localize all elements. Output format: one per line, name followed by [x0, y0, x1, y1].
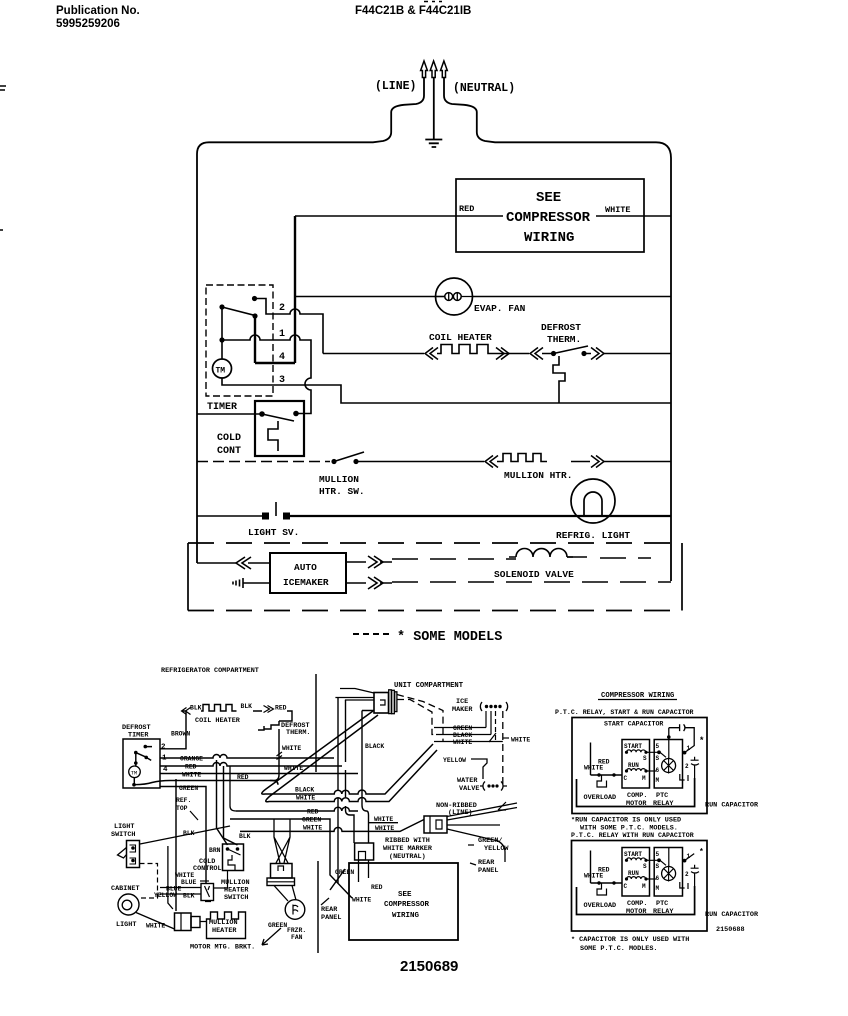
svg-text:PANEL: PANEL	[478, 867, 498, 875]
mullion heater connector	[175, 913, 192, 931]
label COLD CONT	[217, 433, 241, 457]
jog symbol	[489, 733, 496, 742]
svg-text:F44C21B & F44C21IB: F44C21B & F44C21IB	[355, 5, 471, 17]
svg-text:BLK: BLK	[239, 833, 251, 840]
svg-text:BLACK: BLACK	[295, 787, 314, 794]
compressor motor unit 2	[577, 848, 700, 917]
svg-text:GREEN: GREEN	[453, 725, 472, 732]
svg-text:WHITE: WHITE	[605, 205, 631, 215]
icemaker wire rows	[434, 728, 503, 742]
ptc relay box	[654, 740, 682, 789]
freezer fan motor connector	[271, 864, 293, 879]
svg-text:YELLOW: YELLOW	[443, 757, 466, 764]
timer motor TM	[213, 359, 232, 378]
svg-text:WHITE: WHITE	[375, 825, 394, 832]
svg-text:P.T.C. RELAY WITH RUN CAPACITO: P.T.C. RELAY WITH RUN CAPACITOR	[571, 832, 694, 839]
svg-text:WHITE: WHITE	[282, 745, 301, 752]
svg-text:RUN CAPACITOR: RUN CAPACITOR	[705, 802, 759, 810]
svg-text:FRZR.: FRZR.	[287, 927, 306, 934]
svg-text:RED: RED	[307, 809, 319, 816]
svg-text:WHITE: WHITE	[182, 772, 201, 779]
svg-text:AUTO: AUTO	[294, 562, 317, 573]
label ICE MAKER	[452, 698, 473, 714]
mullion heater box castellated	[207, 912, 246, 939]
comp motor box	[622, 740, 650, 789]
svg-text:HTR. SW.: HTR. SW.	[319, 486, 365, 497]
mullion heater switch	[331, 459, 336, 464]
wire to solenoid valve dashed	[392, 557, 651, 559]
wire evap fan rail	[295, 296, 671, 298]
svg-text:BLK: BLK	[241, 703, 253, 710]
svg-text:BRN: BRN	[209, 847, 221, 854]
coil heater arrows left	[182, 708, 191, 715]
white stub wire	[369, 822, 399, 824]
svg-text:START CAPACITOR: START CAPACITOR	[604, 721, 663, 728]
vertical white wire w1	[175, 779, 177, 911]
svg-text:WHITE: WHITE	[146, 923, 165, 930]
svg-text:RELAY: RELAY	[653, 800, 674, 808]
svg-text:M: M	[656, 777, 660, 784]
motor flange	[267, 878, 295, 886]
svg-text:2: 2	[685, 763, 689, 770]
svg-text:4: 4	[279, 352, 285, 363]
AUTO ICEMAKER box	[270, 553, 346, 593]
TIMER dashed box	[206, 285, 273, 396]
svg-text:YELLOW: YELLOW	[154, 892, 177, 899]
svg-text:LIGHT: LIGHT	[114, 823, 134, 831]
svg-text:BLK: BLK	[190, 705, 202, 712]
svg-text:MOTOR: MOTOR	[626, 800, 647, 808]
svg-text:ORANGE: ORANGE	[180, 756, 203, 763]
labels FRZR FAN GREEN	[268, 922, 306, 941]
light switch	[127, 841, 140, 868]
cold control contacts	[259, 411, 265, 417]
svg-text:COMPRESSOR: COMPRESSOR	[384, 901, 430, 909]
svg-text:1: 1	[279, 329, 285, 340]
start capacitor symbol	[669, 724, 694, 746]
labels GREEN BLACK WHITE	[453, 725, 472, 746]
overload protector	[597, 775, 607, 787]
svg-text:GREEN/: GREEN/	[478, 837, 502, 845]
wire timer 3 from TM to right rail	[222, 378, 671, 403]
svg-text:WIRING: WIRING	[524, 230, 574, 246]
plug prong LINE	[421, 61, 428, 78]
left lead vertical	[590, 743, 592, 776]
wire terminal 2 from contact A	[255, 299, 324, 354]
svg-text:COIL HEATER: COIL HEATER	[195, 717, 241, 725]
SOME MODELS dashed enclosure	[188, 543, 682, 611]
svg-text:REAR: REAR	[478, 859, 495, 867]
bottom bus	[577, 778, 695, 807]
svg-text:COLD: COLD	[217, 433, 241, 444]
svg-text:WHITE: WHITE	[352, 897, 371, 904]
svg-text:CONT: CONT	[217, 446, 241, 457]
svg-text:RED: RED	[275, 705, 287, 712]
labels COLD CONTROL BRN	[193, 858, 222, 873]
timer motor TM	[129, 766, 141, 778]
svg-text:RIBBED WITH: RIBBED WITH	[385, 837, 430, 845]
wire terminal 1 from contact D	[222, 335, 311, 414]
COMPRESSOR WIRING SECTION	[555, 692, 759, 953]
svg-text:BROWN: BROWN	[171, 731, 190, 738]
svg-text:(NEUTRAL): (NEUTRAL)	[453, 82, 515, 95]
cold control bellows	[268, 421, 278, 451]
compressor diagram 2 enclosure	[572, 841, 708, 932]
plug diagonal to harness row WHITE2	[266, 715, 437, 802]
svg-text:COMPRESSOR WIRING: COMPRESSOR WIRING	[601, 692, 674, 700]
wire labels column	[154, 872, 197, 900]
svg-text:WHITE: WHITE	[511, 737, 530, 744]
label REAR PANEL right	[478, 859, 498, 875]
svg-text:P.T.C. RELAY, START & RUN CAPA: P.T.C. RELAY, START & RUN CAPACITOR	[555, 709, 694, 716]
svg-text:PTC: PTC	[656, 792, 668, 800]
coil heater arrows	[425, 348, 509, 360]
cabinet light	[118, 894, 139, 915]
wire light rail right	[286, 515, 671, 517]
compressor motor unit 1	[577, 740, 700, 809]
stray scan marks left edge	[0, 86, 6, 230]
motor legs	[274, 886, 296, 902]
svg-text:HEATER: HEATER	[212, 927, 237, 935]
wire defrost to right edge	[604, 353, 671, 355]
wire mullion rail dashed	[197, 461, 330, 463]
start winding	[627, 750, 646, 752]
wire mullion heater rail	[356, 454, 590, 462]
blade to terminal 1	[683, 746, 695, 753]
svg-text:VALVE: VALVE	[459, 785, 479, 793]
ground symbol	[425, 140, 442, 148]
svg-text:SEE: SEE	[398, 891, 412, 899]
run winding	[627, 769, 646, 771]
svg-text:CONTROL: CONTROL	[193, 865, 222, 873]
cold control pictorial	[223, 844, 244, 871]
harness row RED2 from TM	[134, 781, 278, 785]
svg-text:COIL HEATER: COIL HEATER	[429, 332, 492, 343]
svg-text:GREEN: GREEN	[268, 922, 287, 929]
ptc bottom L terminal	[680, 774, 688, 781]
wires to mullion heater switch	[160, 888, 201, 895]
wire B to D to TM	[221, 307, 223, 359]
svg-text:BLUE: BLUE	[181, 879, 197, 886]
svg-text:1: 1	[687, 745, 691, 752]
svg-text:RUN: RUN	[628, 762, 639, 769]
water valve connector	[480, 782, 507, 791]
wire timer T2 up to coil heater	[160, 711, 186, 749]
terminal labels 2 1 4 3	[279, 303, 285, 386]
rear panel line	[317, 861, 319, 953]
ptc disc	[662, 759, 676, 773]
yellow wire	[471, 759, 487, 779]
long vertical v2 plug to connector	[346, 700, 355, 843]
light switch plunger	[275, 502, 277, 516]
svg-text:COMP.: COMP.	[627, 792, 647, 800]
svg-text:TIMER: TIMER	[207, 402, 237, 413]
plug diagonal to harness row BLACK	[262, 711, 433, 794]
dashed wire light switch to cabinet light	[140, 864, 158, 899]
svg-text:BLACK: BLACK	[365, 743, 384, 750]
svg-text:S: S	[656, 755, 660, 762]
svg-text:MAKER: MAKER	[452, 706, 473, 714]
svg-text:LIGHT SV.: LIGHT SV.	[248, 527, 299, 538]
svg-text:2150689: 2150689	[400, 958, 458, 975]
svg-text:2: 2	[279, 303, 285, 314]
harness row GREEN2	[230, 819, 352, 898]
footnote 2	[571, 936, 689, 953]
plug left wires	[335, 689, 374, 701]
power cord entry	[424, 816, 447, 833]
harness row WHITE	[160, 773, 358, 775]
svg-text:THERM.: THERM.	[286, 729, 310, 737]
svg-text:GREEN: GREEN	[335, 869, 354, 876]
BOTTOM LEFT PICTORIAL DIAGRAM	[111, 667, 530, 953]
svg-text:RUN CAPACITOR: RUN CAPACITOR	[705, 911, 759, 919]
svg-text:REFRIGERATOR COMPARTMENT: REFRIGERATOR COMPARTMENT	[161, 667, 259, 675]
timer cam blade B-C	[222, 307, 255, 316]
svg-text:5: 5	[656, 743, 660, 750]
label REF. TOP with pointer	[176, 797, 191, 812]
coil heater arrows right	[264, 706, 274, 713]
label DEFROST THERM.	[281, 722, 310, 737]
svg-text:WHITE: WHITE	[584, 765, 603, 772]
svg-text:EVAP. FAN: EVAP. FAN	[474, 303, 526, 314]
run row wire	[646, 770, 656, 772]
harness row WHITE3 to power cord	[240, 820, 424, 832]
run capacitor	[691, 757, 699, 778]
svg-text:CABINET: CABINET	[111, 885, 140, 893]
icemaker ground symbol	[233, 578, 243, 588]
svg-text:DEFROST: DEFROST	[541, 322, 581, 333]
compartment separator line	[315, 674, 317, 772]
wires from connector into box	[359, 860, 369, 882]
svg-text:MULLION: MULLION	[209, 919, 238, 927]
svg-text:UNIT COMPARTMENT: UNIT COMPARTMENT	[394, 682, 464, 690]
svg-text:COMPRESSOR: COMPRESSOR	[506, 210, 591, 226]
wire coil heater to defrost therm	[253, 711, 292, 721]
timer contact C	[252, 313, 257, 318]
labels MULLION HEATER	[209, 919, 238, 935]
label LIGHT SWITCH	[111, 823, 135, 839]
svg-text:REF.: REF.	[176, 797, 191, 804]
svg-text:*RUN CAPACITOR IS ONLY USED: *RUN CAPACITOR IS ONLY USED	[571, 817, 681, 825]
svg-text:RED: RED	[459, 204, 474, 214]
wire icemaker bottom to right edge dashed	[392, 581, 671, 583]
labels CABINET LIGHT	[111, 885, 140, 929]
wire icemaker feed from left edge	[197, 562, 270, 564]
svg-text:OVERLOAD: OVERLOAD	[584, 794, 617, 802]
timer terminal labels	[161, 744, 168, 775]
refrigerator light bulb	[571, 479, 615, 523]
rear panel pointer dash	[468, 845, 476, 865]
defrost therm pictorial	[258, 721, 279, 730]
svg-text:TM: TM	[131, 769, 138, 776]
wire white from defrost therm	[270, 729, 279, 781]
wire ground pin to earth symbol	[433, 78, 435, 140]
defrost thermostat	[542, 353, 591, 355]
label WATER VALVE	[457, 777, 479, 793]
svg-text:WHITE MARKER: WHITE MARKER	[383, 845, 433, 853]
svg-text:THERM.: THERM.	[547, 334, 581, 345]
svg-text:MULLION: MULLION	[319, 474, 359, 485]
plug plates	[389, 690, 392, 714]
svg-text:RED: RED	[237, 774, 249, 781]
coil heater element	[201, 705, 237, 712]
vertical drop to cold control right	[224, 766, 238, 845]
svg-text:SOME P.T.C. MODLES.: SOME P.T.C. MODLES.	[580, 945, 658, 953]
svg-text:START: START	[624, 743, 642, 750]
label DEFROST THERM.	[541, 322, 581, 345]
svg-text:FAN: FAN	[291, 934, 303, 941]
label MULLION HTR. SW.	[319, 474, 365, 497]
solenoid valve coil	[516, 549, 567, 558]
svg-text:* SOME MODELS: * SOME MODELS	[397, 630, 502, 645]
svg-text:(LINE): (LINE)	[448, 809, 472, 817]
cord wires right	[447, 803, 517, 862]
svg-text:6: 6	[656, 767, 660, 774]
compressor diagram 1 enclosure	[572, 718, 707, 814]
plug prong NEUTRAL	[441, 61, 448, 78]
label REAR PANEL	[321, 906, 341, 922]
svg-text:SWITCH: SWITCH	[224, 894, 248, 902]
svg-text:PANEL: PANEL	[321, 914, 341, 922]
plug right wires to icemaker	[397, 700, 436, 735]
light switch contacts	[262, 513, 269, 520]
wire cabinet light to heater connector	[136, 913, 175, 930]
defrost therm bimetal element	[553, 356, 565, 403]
svg-text:(NEUTRAL): (NEUTRAL)	[389, 853, 426, 861]
svg-text:REAR: REAR	[321, 906, 338, 914]
cold control blade	[262, 414, 294, 421]
svg-text:ICEMAKER: ICEMAKER	[283, 577, 329, 588]
compressor plug connector	[355, 843, 374, 860]
defrost therm arrows	[530, 348, 604, 360]
svg-text:SWITCH: SWITCH	[111, 831, 135, 839]
svg-text:M: M	[642, 775, 646, 782]
wire light rail	[197, 515, 264, 517]
harness row RED3	[236, 807, 358, 811]
legend dash sample	[353, 633, 392, 635]
vertical drop to cold control left	[217, 760, 228, 845]
icemaker connector	[480, 702, 507, 711]
harness row ORANGE	[160, 755, 334, 758]
green pointer arrow	[262, 928, 281, 945]
label GREEN/YELLOW	[478, 837, 509, 853]
long vertical v1 plug to green X	[337, 698, 339, 884]
svg-text:MULLION HTR.: MULLION HTR.	[504, 470, 572, 481]
icemaker feed arrows	[236, 557, 251, 569]
svg-text:*: *	[699, 736, 704, 746]
svg-text:* CAPACITOR IS ONLY USED WITH: * CAPACITOR IS ONLY USED WITH	[571, 936, 689, 944]
timer contacts	[144, 745, 148, 749]
main bottom lead	[591, 774, 623, 776]
svg-text:WHITE: WHITE	[374, 816, 393, 823]
svg-text:5995259206: 5995259206	[56, 18, 120, 30]
svg-text:WHITE: WHITE	[175, 872, 194, 879]
svg-text:2150688: 2150688	[716, 926, 745, 934]
timer contact D	[219, 337, 224, 342]
defrost timer label	[122, 724, 151, 740]
outer boundary top right + right edge (NEUTRAL side)	[444, 78, 671, 582]
svg-text:Publication No.: Publication No.	[56, 5, 140, 17]
svg-text:2: 2	[161, 744, 166, 752]
COLD CONT box	[255, 401, 304, 456]
svg-text:RED: RED	[185, 764, 197, 771]
svg-text:TM: TM	[216, 367, 226, 376]
see compressor wiring box pictorial	[349, 863, 458, 940]
svg-text:BLACK: BLACK	[453, 732, 472, 739]
SEE COMPRESSOR WIRING box	[456, 179, 644, 252]
svg-text:WHITE: WHITE	[296, 795, 315, 802]
svg-text:YELLOW: YELLOW	[484, 845, 509, 853]
timer contact B	[219, 304, 224, 309]
icemaker output top	[346, 561, 392, 563]
wire coil heater rail	[323, 345, 529, 354]
defrost therm blade	[554, 346, 589, 354]
timer contact A	[252, 296, 257, 301]
label NON-RIBBED (LINE)	[436, 802, 477, 817]
outer boundary left+top (LINE side)	[197, 78, 424, 564]
plug body	[374, 693, 389, 714]
svg-text:LIGHT: LIGHT	[116, 921, 136, 929]
HEADER	[56, 2, 471, 31]
timer cam blade	[136, 747, 152, 763]
svg-text:C: C	[624, 775, 628, 782]
svg-text:WHITE: WHITE	[453, 739, 472, 746]
wire red rail to compressor box	[295, 215, 671, 217]
label RIBBED WITH WHITE MARKER (NEUTRAL)	[383, 837, 433, 861]
svg-text:GREEN: GREEN	[302, 817, 321, 824]
vertical wire to heater connector	[168, 846, 173, 909]
icemaker output bottom	[346, 582, 392, 584]
svg-text:ICE: ICE	[456, 698, 468, 706]
labels MULLION HEATER SWITCH	[221, 879, 250, 902]
svg-text:WIRING: WIRING	[392, 912, 420, 920]
svg-text:BLK: BLK	[183, 830, 195, 837]
red drop wire	[230, 766, 236, 811]
defrost timer box	[123, 739, 160, 788]
wire GREEN from timer	[160, 787, 206, 884]
wire cold control to switch	[214, 871, 228, 889]
icemaker wires down	[486, 711, 491, 735]
harness row RED	[160, 763, 342, 767]
footnote 1	[571, 817, 681, 833]
wire light switch up to harness	[140, 826, 230, 844]
freezer fan circle	[285, 900, 305, 920]
wire to right edge	[604, 461, 671, 463]
svg-text:MOTOR MTG. BRKT.: MOTOR MTG. BRKT.	[190, 944, 255, 952]
svg-text:*: *	[699, 848, 704, 857]
wire cold control feed	[197, 413, 262, 415]
scan specks top	[424, 1, 442, 3]
svg-text:TOP: TOP	[176, 805, 188, 812]
svg-text:GREEN: GREEN	[179, 785, 198, 792]
svg-text:REFRIG. LIGHT: REFRIG. LIGHT	[556, 530, 630, 541]
svg-text:RED: RED	[371, 884, 383, 891]
long vertical v3 plug to connector	[362, 711, 374, 844]
svg-text:WHITE: WHITE	[303, 825, 322, 832]
terminal letters	[624, 743, 660, 784]
svg-text:SEE: SEE	[536, 190, 561, 206]
feed vertical wire x=295	[255, 216, 295, 363]
svg-text:WATER: WATER	[457, 777, 478, 785]
svg-text:S: S	[643, 755, 647, 762]
svg-text:(LINE): (LINE)	[375, 80, 416, 93]
freezer fan motor drops	[274, 819, 290, 863]
mullion heater switch box	[201, 884, 214, 901]
wires start row	[646, 740, 669, 759]
mullion heater arrows	[485, 456, 604, 468]
svg-text:SOLENOID VALVE: SOLENOID VALVE	[494, 569, 574, 580]
plug prong ground pin	[430, 61, 437, 78]
